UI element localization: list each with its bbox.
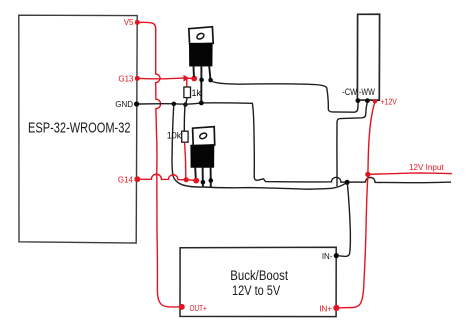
svg-text:-WW: -WW (359, 87, 375, 97)
node Q2 gate junction dot (193, 178, 199, 184)
transistor Q2 tab (193, 127, 215, 146)
svg-text:12V Input: 12V Input (409, 162, 444, 172)
transistor Q1 tab hole (196, 32, 205, 40)
pin IN- dot (334, 253, 339, 258)
node Q1 drain dot (208, 78, 213, 83)
transistor Q1 tab (189, 27, 213, 45)
wire G13 arrow to gate dot (188, 77, 194, 79)
transistor Q1 middle leg (to GND) (200, 66, 202, 103)
resistor R2 10k body (182, 131, 188, 142)
svg-text:Buck/Boost: Buck/Boost (230, 268, 288, 283)
node Q1 gate junction dot (191, 76, 197, 82)
wire V5 net: from V5 pin right, down left of components, to OUT+ (red) (140, 22, 180, 307)
node Q1 middle leg dot (199, 78, 204, 83)
svg-text:ESP-32-WROOM-32: ESP-32-WROOM-32 (28, 121, 131, 137)
resistor R2 10k top stub (black, from GND line) (183, 105, 186, 132)
node -WW terminal dot (365, 98, 370, 103)
svg-text:G13: G13 (118, 75, 134, 84)
transistor Q2 tab hole (199, 132, 208, 140)
pin IN+ dot (333, 305, 339, 311)
node GND junction dot (to lower run) (172, 102, 177, 107)
buck converter module box (180, 247, 336, 316)
transistor Q2 middle leg (202, 167, 204, 187)
svg-text:10k: 10k (167, 131, 182, 141)
node Q2 middle leg dot (201, 180, 206, 185)
wire Q1 drain to LED -CW (213, 82, 359, 113)
node Q2 right leg dot (209, 178, 214, 183)
pin G14 dot (134, 176, 140, 182)
wire 1k top stub (red, from G13 net down to R1) (186, 78, 188, 87)
svg-text:GND: GND (115, 100, 133, 109)
svg-text:OUT+: OUT+ (190, 304, 207, 313)
node GND-Q1 source junction dot (199, 101, 204, 106)
wire G13 net: G13 pin to Q1 gate (red) (140, 77, 185, 80)
svg-text:+12V: +12V (381, 97, 398, 107)
resistor R1 1k body (184, 87, 191, 98)
transistor Q2 right leg (210, 167, 212, 188)
svg-text:-CW: -CW (342, 87, 357, 97)
svg-text:IN+: IN+ (319, 304, 332, 313)
wire lower GND run: from GND dot down, curves right under Q2, joins bus at junction dot (172, 105, 347, 190)
svg-text:G14: G14 (118, 176, 134, 185)
svg-text:12V to 5V: 12V to 5V (232, 283, 280, 298)
transistor Q1 right leg (drain) (209, 66, 210, 79)
pin GND dot (134, 101, 139, 106)
svg-text:V5: V5 (124, 18, 134, 27)
wire 12V input feed (red, from right) (369, 173, 453, 174)
wire G14 net: G14 pin right with two hops to Q2 gate (red) (140, 174, 196, 180)
node 12V input junction dot (red) (365, 172, 370, 177)
wire 10k bottom stub (red, to G14 net) (185, 142, 186, 178)
node GND bus junction dot (IN- tap) (345, 180, 350, 185)
svg-text:IN-: IN- (322, 252, 333, 261)
pin OUT+ dot (179, 304, 185, 310)
transistor Q1 body (190, 43, 213, 66)
ESP32 module U1 box (19, 15, 137, 243)
svg-text:1k: 1k (192, 88, 202, 98)
node -CW terminal dot (356, 98, 361, 103)
wire junction to buck IN- (339, 183, 350, 256)
node +12V terminal dot (red) (373, 99, 377, 103)
wire +12V net: LED +12V down to junction, down to IN+ (red) (340, 103, 375, 308)
wire -WW to Q2 drain area (337, 103, 367, 187)
pin V5 dot (135, 20, 140, 25)
transistor Q2 body (191, 145, 214, 167)
node 1k-GND junction dot (183, 102, 187, 106)
LED strip module (357, 14, 379, 100)
pin G13 dot (135, 76, 140, 81)
transistor Q1 gate leg (193, 66, 195, 77)
arrowhead on G13 wire (184, 75, 190, 82)
wire GND bus: ESP GND right, down at x=253, right along y=181 to supply return (139, 103, 451, 183)
wire 1k bottom stub to GND line (186, 98, 188, 105)
node 10k-G14 junction dot (184, 177, 189, 182)
transistor Q2 gate leg (194, 167, 197, 179)
